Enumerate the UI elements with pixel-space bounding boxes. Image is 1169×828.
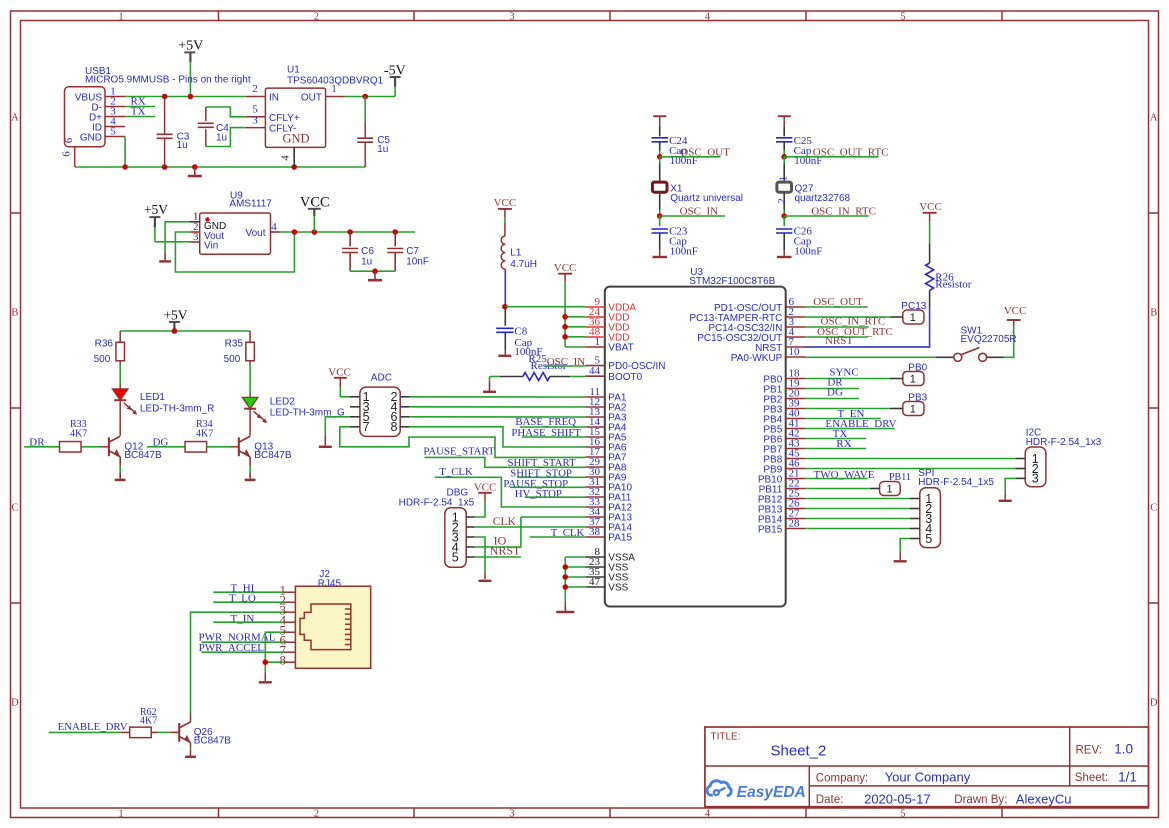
svg-text:5: 5 <box>900 808 905 819</box>
svg-text:5: 5 <box>900 11 905 22</box>
svg-text:CFLY+: CFLY+ <box>269 113 300 124</box>
svg-text:2: 2 <box>314 11 319 22</box>
svg-text:+5V: +5V <box>178 39 203 54</box>
svg-text:10: 10 <box>789 346 801 358</box>
svg-text:VSS: VSS <box>608 583 628 594</box>
svg-text:AlexeyCu: AlexeyCu <box>1016 791 1072 806</box>
svg-text:5: 5 <box>925 532 932 546</box>
svg-text:EasyEDA: EasyEDA <box>737 784 806 801</box>
svg-text:1: 1 <box>910 374 916 386</box>
svg-text:PAUSE_START: PAUSE_START <box>423 446 495 458</box>
svg-text:3: 3 <box>1032 472 1039 486</box>
svg-text:VCC: VCC <box>554 262 577 274</box>
svg-text:6: 6 <box>63 137 75 143</box>
svg-text:HDR-F-2.54_1x3: HDR-F-2.54_1x3 <box>1026 437 1102 448</box>
svg-text:BC847B: BC847B <box>124 450 162 461</box>
svg-text:REV:: REV: <box>1076 744 1102 756</box>
svg-text:R36: R36 <box>95 339 114 350</box>
svg-text:VBAT: VBAT <box>608 343 633 354</box>
svg-text:2: 2 <box>252 83 258 95</box>
svg-text:HDR-F-2.54_1x5: HDR-F-2.54_1x5 <box>918 477 994 488</box>
svg-text:2: 2 <box>776 198 788 204</box>
svg-text:ADC: ADC <box>371 373 392 384</box>
svg-text:HDR-F-2.54_1x5: HDR-F-2.54_1x5 <box>399 497 475 508</box>
svg-text:3: 3 <box>252 114 258 126</box>
svg-text:2: 2 <box>314 808 319 819</box>
svg-text:VCC: VCC <box>328 366 351 378</box>
svg-text:D: D <box>1150 697 1158 708</box>
svg-text:Drawn By:: Drawn By: <box>954 794 1007 806</box>
svg-text:6: 6 <box>61 151 73 157</box>
svg-text:1u: 1u <box>216 133 227 144</box>
svg-text:+5V: +5V <box>163 307 187 322</box>
svg-text:D: D <box>11 697 19 708</box>
svg-text:C8: C8 <box>514 326 527 338</box>
svg-text:HV_STOP: HV_STOP <box>515 488 562 500</box>
svg-text:PB15: PB15 <box>758 525 783 536</box>
svg-text:1u: 1u <box>377 144 388 155</box>
svg-text:VCC: VCC <box>1004 305 1027 317</box>
svg-text:4K7: 4K7 <box>70 429 87 440</box>
svg-text:1u: 1u <box>361 257 372 268</box>
svg-text:B: B <box>1150 307 1157 318</box>
svg-text:44: 44 <box>589 365 601 377</box>
svg-text:47: 47 <box>589 576 601 588</box>
svg-text:2020-05-17: 2020-05-17 <box>864 791 931 806</box>
svg-text:Company:: Company: <box>816 772 868 784</box>
svg-text:100nF: 100nF <box>794 245 822 257</box>
svg-text:Date:: Date: <box>816 794 844 806</box>
svg-text:NRST: NRST <box>490 543 521 557</box>
svg-text:4K7: 4K7 <box>140 716 157 727</box>
svg-text:10nF: 10nF <box>406 257 429 268</box>
svg-text:T_CLK: T_CLK <box>439 466 473 478</box>
svg-text:Sheet:: Sheet: <box>1075 772 1108 784</box>
svg-text:500: 500 <box>224 354 241 365</box>
svg-text:C7: C7 <box>406 246 419 257</box>
svg-text:1: 1 <box>118 11 123 22</box>
svg-text:Your Company: Your Company <box>885 770 971 785</box>
svg-text:BC847B: BC847B <box>254 450 292 461</box>
svg-text:1: 1 <box>910 404 916 416</box>
svg-text:4: 4 <box>705 11 711 22</box>
svg-text:CLK: CLK <box>493 516 517 528</box>
svg-text:BOOT0: BOOT0 <box>608 372 642 383</box>
svg-text:Sheet_2: Sheet_2 <box>771 743 827 760</box>
svg-text:BASE_FREQ: BASE_FREQ <box>515 416 576 428</box>
svg-text:5: 5 <box>452 550 459 564</box>
svg-text:C: C <box>11 502 18 513</box>
svg-text:IN: IN <box>269 93 279 104</box>
svg-text:4: 4 <box>271 221 277 233</box>
svg-text:GND: GND <box>282 131 309 145</box>
svg-text:7: 7 <box>363 420 370 434</box>
svg-text:5: 5 <box>110 126 116 138</box>
svg-text:L1: L1 <box>510 248 522 259</box>
svg-text:GND: GND <box>80 133 102 144</box>
svg-text:C: C <box>1150 502 1157 513</box>
svg-text:Quartz universal: Quartz universal <box>670 193 743 204</box>
svg-text:PB0: PB0 <box>908 363 927 374</box>
svg-text:4.7uH: 4.7uH <box>510 259 537 270</box>
svg-text:VCC: VCC <box>494 197 517 209</box>
svg-text:LED-TH-3mm_R: LED-TH-3mm_R <box>140 404 214 415</box>
svg-text:3: 3 <box>509 808 514 819</box>
svg-text:4K7: 4K7 <box>196 429 213 440</box>
svg-text:TITLE:: TITLE: <box>711 732 741 743</box>
svg-text:PB11: PB11 <box>889 472 911 483</box>
svg-text:+5V: +5V <box>144 202 168 217</box>
svg-text:1: 1 <box>887 484 893 496</box>
svg-text:A: A <box>11 112 19 123</box>
svg-text:1u: 1u <box>177 140 188 151</box>
svg-text:500: 500 <box>94 354 111 365</box>
svg-text:ENABLE_DRV: ENABLE_DRV <box>58 721 128 733</box>
svg-text:STM32F100C8T6B: STM32F100C8T6B <box>689 276 775 287</box>
svg-text:PA0-WKUP: PA0-WKUP <box>731 353 783 364</box>
svg-text:Resistor: Resistor <box>935 279 971 291</box>
svg-text:LED2: LED2 <box>270 396 295 407</box>
svg-text:TX: TX <box>131 105 146 117</box>
svg-text:3: 3 <box>193 231 199 243</box>
svg-text:OSC_OUT: OSC_OUT <box>813 296 863 308</box>
svg-text:1.0: 1.0 <box>1114 742 1133 757</box>
svg-text:BC847B: BC847B <box>194 735 232 746</box>
svg-text:PA15: PA15 <box>608 533 632 544</box>
svg-text:1: 1 <box>910 312 916 324</box>
svg-text:1: 1 <box>118 808 123 819</box>
svg-text:OUT: OUT <box>301 93 322 104</box>
svg-text:PC13: PC13 <box>901 301 926 312</box>
svg-text:1: 1 <box>331 83 337 95</box>
svg-text:3: 3 <box>509 11 514 22</box>
svg-text:1/1: 1/1 <box>1118 769 1137 784</box>
svg-text:AMS1117: AMS1117 <box>229 199 272 210</box>
svg-text:PD0-OSC/IN: PD0-OSC/IN <box>608 361 665 372</box>
svg-text:A: A <box>1150 112 1158 123</box>
svg-text:EVQ22705R: EVQ22705R <box>961 334 1017 345</box>
svg-text:28: 28 <box>789 518 801 530</box>
svg-text:DG: DG <box>827 386 843 398</box>
svg-text:C6: C6 <box>361 246 374 257</box>
svg-text:VCC: VCC <box>919 201 942 213</box>
svg-text:LED1: LED1 <box>140 392 165 403</box>
svg-text:-5V: -5V <box>384 63 406 78</box>
svg-text:U1: U1 <box>287 65 300 76</box>
svg-text:Vout: Vout <box>245 228 265 239</box>
svg-text:Vin: Vin <box>204 241 218 252</box>
svg-text:1: 1 <box>595 336 601 348</box>
svg-text:MICRO5.9MMUSB - Pins on the ri: MICRO5.9MMUSB - Pins on the right <box>85 74 251 85</box>
svg-text:4: 4 <box>705 808 711 819</box>
svg-text:8: 8 <box>390 420 397 434</box>
svg-text:4: 4 <box>280 155 292 161</box>
svg-text:NRST: NRST <box>825 335 853 347</box>
svg-text:B: B <box>11 307 18 318</box>
svg-text:1: 1 <box>778 176 790 182</box>
svg-text:38: 38 <box>589 526 601 538</box>
svg-text:8: 8 <box>280 653 287 668</box>
svg-text:VCC: VCC <box>474 482 497 494</box>
svg-text:100nF: 100nF <box>670 245 698 257</box>
svg-text:quartz32768: quartz32768 <box>795 193 851 204</box>
svg-text:R35: R35 <box>225 339 244 350</box>
svg-text:PB3: PB3 <box>908 393 927 404</box>
